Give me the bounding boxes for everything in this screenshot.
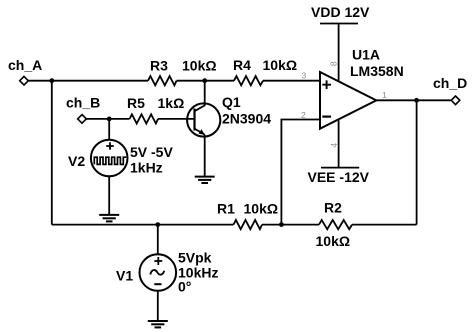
svg-text:ch_A: ch_A xyxy=(8,57,42,73)
resistor R1 10kOhm xyxy=(234,220,263,229)
resistor R3 10kOhm xyxy=(148,76,177,85)
op-amp U1A LM358N xyxy=(301,47,404,148)
svg-text:8: 8 xyxy=(329,61,339,66)
svg-text:0°: 0° xyxy=(178,279,191,295)
wire V1 to ground xyxy=(157,291,159,321)
wire R2 to right column xyxy=(352,224,417,226)
svg-text:1kHz: 1kHz xyxy=(130,160,163,176)
svg-text:10kΩ: 10kΩ xyxy=(182,58,217,74)
svg-text:2N3904: 2N3904 xyxy=(222,111,271,127)
junction output / right column xyxy=(414,98,419,103)
wire Q1 emitter to ground xyxy=(204,135,206,177)
svg-text:R4: R4 xyxy=(233,57,251,73)
connector ch_B xyxy=(78,115,87,124)
junction bottom row / V1 xyxy=(155,222,160,227)
svg-text:V1: V1 xyxy=(116,268,133,284)
wire top row ch_A to R3 xyxy=(28,80,148,82)
resistor R5 1kOhm xyxy=(130,114,159,123)
wire V1 to bottom row xyxy=(157,225,159,255)
source V2 square wave 5V -5V 1kHz xyxy=(68,140,173,177)
wire Q1 collector xyxy=(204,81,206,106)
svg-text:LM358N: LM358N xyxy=(350,63,404,79)
power VDD 12V xyxy=(311,4,370,81)
junction ch_A / left column xyxy=(49,78,54,83)
svg-text:10kΩ: 10kΩ xyxy=(244,201,279,217)
ground under V2 xyxy=(99,215,119,222)
svg-text:R2: R2 xyxy=(324,200,342,216)
svg-text:3: 3 xyxy=(302,70,307,80)
svg-text:1: 1 xyxy=(382,90,387,100)
wire R1 to R2 xyxy=(262,224,319,226)
wire right column xyxy=(416,100,418,224)
svg-text:5Vpk: 5Vpk xyxy=(178,250,212,266)
svg-text:R3: R3 xyxy=(150,58,168,74)
wire R3 to R4 xyxy=(177,80,235,82)
power VEE -12V xyxy=(308,120,370,185)
svg-text:R5: R5 xyxy=(127,95,145,111)
ground under Q1 emitter xyxy=(195,177,215,183)
svg-text:Q1: Q1 xyxy=(222,94,241,110)
wire V2 to ch_B node xyxy=(108,119,110,140)
svg-text:4: 4 xyxy=(329,143,339,148)
wire feedback vertical to pin 2 xyxy=(281,120,320,225)
source V1 sine 5Vpk 10kHz 0deg xyxy=(116,250,218,295)
transistor Q1 2N3904 xyxy=(187,94,271,137)
svg-text:1kΩ: 1kΩ xyxy=(158,95,185,111)
wire op-amp output to ch_D xyxy=(376,99,451,101)
wire ch_B to R5 xyxy=(86,118,129,120)
svg-text:5V -5V: 5V -5V xyxy=(130,144,173,160)
wire bottom row to R1 xyxy=(52,224,234,226)
ground under V1 xyxy=(148,321,168,327)
connector ch_D xyxy=(451,96,460,105)
junction ch_B / V2 xyxy=(107,117,112,122)
wire V2 to ground xyxy=(108,176,110,215)
svg-text:R1: R1 xyxy=(217,201,235,217)
wire R4 to op-amp pin 3 xyxy=(263,80,320,82)
svg-text:10kΩ: 10kΩ xyxy=(316,233,351,249)
svg-text:V2: V2 xyxy=(68,153,85,169)
svg-text:10kΩ: 10kΩ xyxy=(263,57,298,73)
wire left column xyxy=(51,81,53,225)
connector ch_A xyxy=(20,76,29,85)
junction R3 / Q1 collector xyxy=(202,78,207,83)
wire R5 to Q1 base xyxy=(158,118,195,120)
svg-text:U1A: U1A xyxy=(352,47,380,63)
junction R1 / feedback xyxy=(279,222,284,227)
svg-text:VEE -12V: VEE -12V xyxy=(308,169,370,185)
svg-text:ch_B: ch_B xyxy=(66,95,100,111)
svg-text:ch_D: ch_D xyxy=(433,75,467,91)
svg-text:VDD 12V: VDD 12V xyxy=(311,4,370,20)
svg-text:2: 2 xyxy=(301,110,306,120)
resistor R2 10kOhm xyxy=(319,220,352,229)
resistor R4 10kOhm xyxy=(234,76,263,85)
